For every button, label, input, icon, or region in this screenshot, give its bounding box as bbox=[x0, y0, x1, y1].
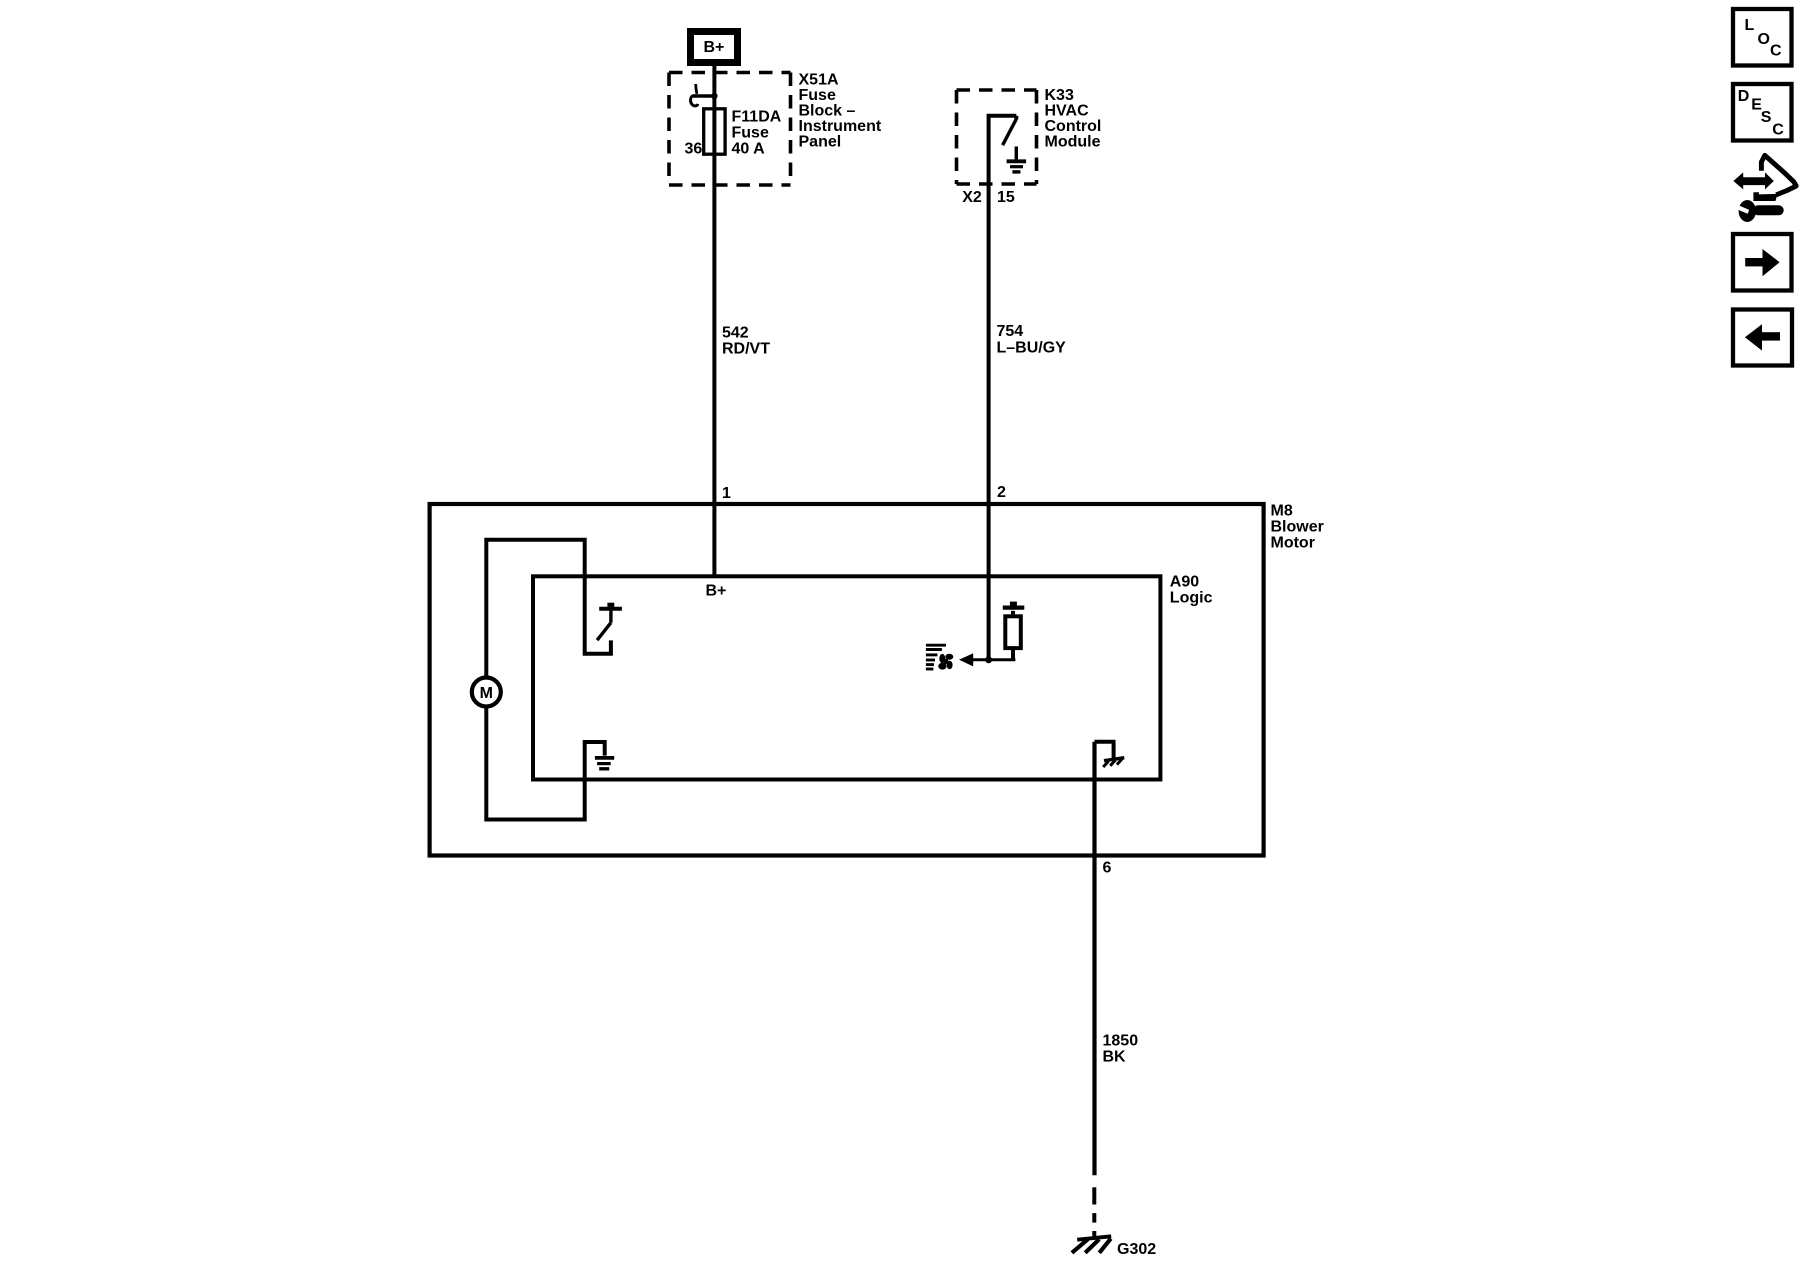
junction dot on bus bbox=[711, 93, 717, 99]
svg-text:2: 2 bbox=[997, 484, 1006, 501]
logic module A90 inner box bbox=[533, 576, 1160, 779]
svg-text:B+: B+ bbox=[704, 39, 725, 56]
arrowhead bbox=[959, 653, 973, 666]
HVAC control module K33 dashed outline bbox=[957, 90, 1037, 184]
svg-text:B+: B+ bbox=[706, 583, 727, 600]
svg-text:Instrument: Instrument bbox=[799, 118, 882, 135]
svg-text:HVAC: HVAC bbox=[1045, 103, 1090, 120]
svg-text:O: O bbox=[1758, 31, 1770, 48]
svg-text:D: D bbox=[1738, 88, 1750, 105]
svg-text:L–BU/GY: L–BU/GY bbox=[997, 340, 1067, 357]
svg-text:Block –: Block – bbox=[799, 103, 856, 120]
fuse value labels bbox=[732, 109, 782, 158]
blower motor M8 outer box bbox=[430, 504, 1264, 856]
svg-text:BK: BK bbox=[1103, 1049, 1127, 1066]
motor M symbol bbox=[472, 678, 501, 707]
LOC button bbox=[1733, 9, 1792, 66]
A90 internal ground left bbox=[595, 758, 614, 769]
control line with arrow to fan bbox=[962, 658, 1015, 661]
back arrow button bbox=[1733, 310, 1792, 366]
svg-text:A90: A90 bbox=[1170, 574, 1199, 591]
next arrow button bbox=[1733, 234, 1792, 291]
ground G302 bbox=[1072, 1236, 1111, 1253]
A90 name label bbox=[1170, 574, 1213, 607]
svg-text:15: 15 bbox=[997, 189, 1015, 206]
svg-text:C: C bbox=[1770, 43, 1782, 60]
dashed wire to G302 bbox=[1092, 1187, 1096, 1237]
wire: motor high side to internal switch bbox=[486, 540, 611, 678]
vehicle diagnostic icon bbox=[1733, 155, 1796, 222]
DESC button bbox=[1733, 84, 1792, 141]
junction dot pin2/resistor bbox=[985, 656, 992, 663]
svg-text:M8: M8 bbox=[1271, 503, 1293, 520]
resistor with terminal bar bbox=[1003, 602, 1025, 660]
svg-text:RD/VT: RD/VT bbox=[722, 341, 770, 358]
wire: B+ feed through fuse to pin 1 (542 RD/VT) bbox=[712, 66, 716, 577]
battery terminal B+ box bbox=[687, 28, 741, 66]
svg-text:542: 542 bbox=[722, 325, 749, 342]
A90 internal chassis ground right bbox=[1095, 742, 1125, 767]
svg-text:M: M bbox=[480, 685, 493, 702]
svg-text:Panel: Panel bbox=[799, 134, 842, 151]
svg-text:754: 754 bbox=[997, 323, 1024, 340]
fan icon bbox=[926, 645, 946, 669]
K33 module name label bbox=[1045, 87, 1102, 151]
X51A fuse block name label bbox=[799, 72, 882, 151]
svg-text:X51A: X51A bbox=[799, 72, 839, 89]
svg-text:Control: Control bbox=[1045, 118, 1102, 135]
svg-text:1850: 1850 bbox=[1103, 1033, 1139, 1050]
M8 name label bbox=[1271, 503, 1324, 552]
svg-text:L: L bbox=[1745, 17, 1755, 34]
wire: hook to bus junction bbox=[693, 94, 715, 97]
K33 switch blade bbox=[1003, 116, 1017, 145]
svg-text:Motor: Motor bbox=[1271, 535, 1315, 552]
K33 internal wire to pin 15 bbox=[989, 116, 1017, 184]
fuse block X51A dashed outline bbox=[669, 73, 791, 186]
fuse F11DA 40 A bbox=[704, 109, 725, 154]
svg-text:C: C bbox=[1772, 122, 1784, 139]
svg-text:G302: G302 bbox=[1117, 1241, 1156, 1258]
K33 internal ground bbox=[1007, 147, 1027, 172]
svg-text:36: 36 bbox=[685, 141, 703, 158]
svg-text:Blower: Blower bbox=[1271, 519, 1324, 536]
svg-text:40 A: 40 A bbox=[732, 141, 766, 158]
svg-text:X2: X2 bbox=[962, 189, 982, 206]
A90 internal switch bbox=[597, 603, 622, 641]
fuse block bus hook symbol bbox=[690, 84, 697, 106]
svg-text:K33: K33 bbox=[1045, 87, 1074, 104]
svg-text:1: 1 bbox=[722, 485, 731, 502]
svg-text:Fuse: Fuse bbox=[799, 87, 836, 104]
wire: A90 ground to pin 6 (1850 BK) bbox=[1092, 742, 1096, 1175]
wire: motor low side to internal ground bbox=[486, 706, 604, 819]
svg-text:F11DA: F11DA bbox=[732, 109, 782, 126]
svg-text:Logic: Logic bbox=[1170, 590, 1213, 607]
svg-text:Fuse: Fuse bbox=[732, 125, 769, 142]
svg-text:S: S bbox=[1761, 109, 1772, 126]
wire: K33 pin 15 to blower pin 2 (754 L-BU/GY) bbox=[987, 184, 991, 660]
svg-text:Module: Module bbox=[1045, 134, 1101, 151]
svg-text:6: 6 bbox=[1103, 860, 1112, 877]
